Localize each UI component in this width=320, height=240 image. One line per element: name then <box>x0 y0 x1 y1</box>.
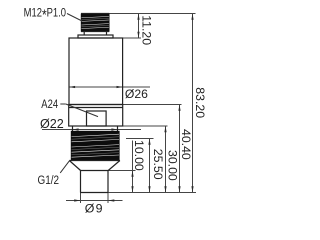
tip bottom edge <box>81 192 109 194</box>
svg-text:83.20: 83.20 <box>193 87 207 118</box>
white thread grooves M12 <box>81 16 109 28</box>
svg-text:A24: A24 <box>41 98 58 111</box>
svg-text:10.00: 10.00 <box>132 140 146 171</box>
svg-text:40.40: 40.40 <box>179 129 193 160</box>
40.40 arrows <box>178 105 180 111</box>
taper below thread <box>69 160 120 162</box>
hex nut center face <box>87 111 107 126</box>
leader G1/2 <box>60 161 69 173</box>
washer step sides <box>72 126 74 131</box>
dim line 83.20 <box>192 14 194 193</box>
O9 arrows outside pointing inward <box>74 199 80 201</box>
body bottom extension line (to 40.40) <box>123 104 182 106</box>
83.20 arrows <box>191 14 193 20</box>
O22 arrows <box>72 128 78 130</box>
tip cylinder sides <box>80 171 82 193</box>
svg-text:25.50: 25.50 <box>151 149 165 180</box>
dim line O26 inside body <box>69 86 151 88</box>
tip top extension (10.00) <box>108 170 136 172</box>
svg-text:11.20: 11.20 <box>140 15 154 45</box>
white thread grooves G1/2 <box>72 134 120 157</box>
thread M12 top connector <box>81 14 109 31</box>
svg-text:Ø26: Ø26 <box>125 87 148 101</box>
leader M12*P1.0 <box>67 14 82 22</box>
svg-text:Ø9: Ø9 <box>85 201 104 215</box>
flange <box>78 35 113 38</box>
dim line 30.00 <box>165 126 167 193</box>
25.50 top extension stub <box>126 138 154 140</box>
dim line O22 + washer-bottom extension <box>42 129 141 131</box>
svg-text:30.00: 30.00 <box>165 150 179 181</box>
thread G1/2 <box>71 131 119 160</box>
top extension line from thread top <box>109 13 196 15</box>
dim line O9 <box>66 200 123 202</box>
body top extension line <box>113 37 142 39</box>
leader A24 <box>60 103 66 105</box>
11.20 arrows <box>137 14 139 20</box>
30.00 arrows <box>164 126 166 132</box>
hex nut <box>69 105 123 127</box>
O9 extension stubs below tip <box>80 193 82 204</box>
svg-text:Ø22: Ø22 <box>40 117 64 131</box>
neck below thread <box>81 31 109 33</box>
dim line 25.50 <box>149 139 151 193</box>
body cylinder <box>69 38 123 105</box>
nut bottom extension line (to 30.00) <box>123 125 168 127</box>
dim line 10.00 <box>132 141 134 193</box>
dim line 40.40 <box>179 105 181 193</box>
O26 arrows <box>69 86 75 88</box>
tip bottom edge extension to right dims <box>108 192 196 194</box>
10.00 arrows <box>131 171 133 177</box>
dim line 11.20 <box>138 14 140 39</box>
25.50 arrows <box>148 139 150 145</box>
arrowheads <box>69 14 194 202</box>
svg-text:G1/2: G1/2 <box>38 175 60 188</box>
